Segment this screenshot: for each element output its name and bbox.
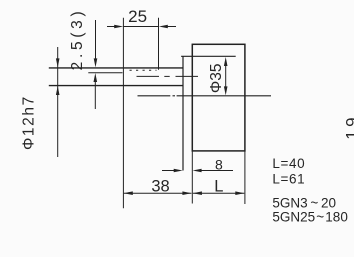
body left edge extension below (for 8 and L dims) — [191, 151, 193, 204]
svg-text:38: 38 — [151, 177, 169, 195]
phi12 dimension line with outside arrows — [56, 47, 60, 157]
2.5(3) upper arrow line — [94, 20, 98, 67]
dimension line 25 — [123, 26, 158, 28]
boss top edge + phi35 extension line — [181, 55, 236, 57]
svg-text:Φ12h7: Φ12h7 — [21, 95, 38, 150]
arrow left of 25 dim — [107, 25, 123, 29]
svg-text:L=61: L=61 — [272, 172, 305, 187]
shaft end face / extension line for 25 and 38 dims — [122, 18, 124, 209]
phi35 dimension line with arrows — [224, 57, 228, 95]
body right edge extension below (for L dim) — [244, 151, 246, 204]
svg-text:2.5(3): 2.5(3) — [69, 8, 86, 71]
shaft outline bottom (with extension to left) — [49, 85, 183, 87]
svg-text:5GN25 ~ 180: 5GN25 ~ 180 — [272, 209, 347, 224]
extension line right end of 25 dim — [158, 18, 160, 70]
svg-text:L=40: L=40 — [272, 156, 305, 171]
gearhead pilot boss left edge + extension down to 8-dim — [182, 56, 184, 170]
svg-text:L: L — [214, 177, 223, 195]
L dimension line with inside arrows — [193, 191, 244, 195]
svg-text:8: 8 — [215, 157, 223, 173]
gearhead body rectangle — [192, 44, 245, 151]
shaft centerline dash-dot — [137, 75, 199, 77]
arrow right of 25 dim — [159, 25, 176, 29]
boss bottom / long centerline at y=95.8 — [138, 95, 272, 97]
shaft outline top (with extension to left) — [49, 67, 183, 69]
svg-text:19: 19 — [343, 114, 354, 140]
hidden dotted line of flat on shaft — [130, 69, 157, 71]
svg-text:25: 25 — [128, 7, 147, 26]
svg-text:Φ35: Φ35 — [208, 63, 225, 93]
2.5(3) lower arrow line — [94, 73, 98, 109]
flat (D-cut) extension line — [88, 72, 122, 74]
38 dimension line with inside arrows — [124, 191, 192, 195]
svg-text:5GN3 ~ 20: 5GN3 ~ 20 — [272, 196, 336, 211]
8 dim right arrow with tail — [193, 169, 233, 173]
8 dim left arrow — [162, 169, 183, 173]
